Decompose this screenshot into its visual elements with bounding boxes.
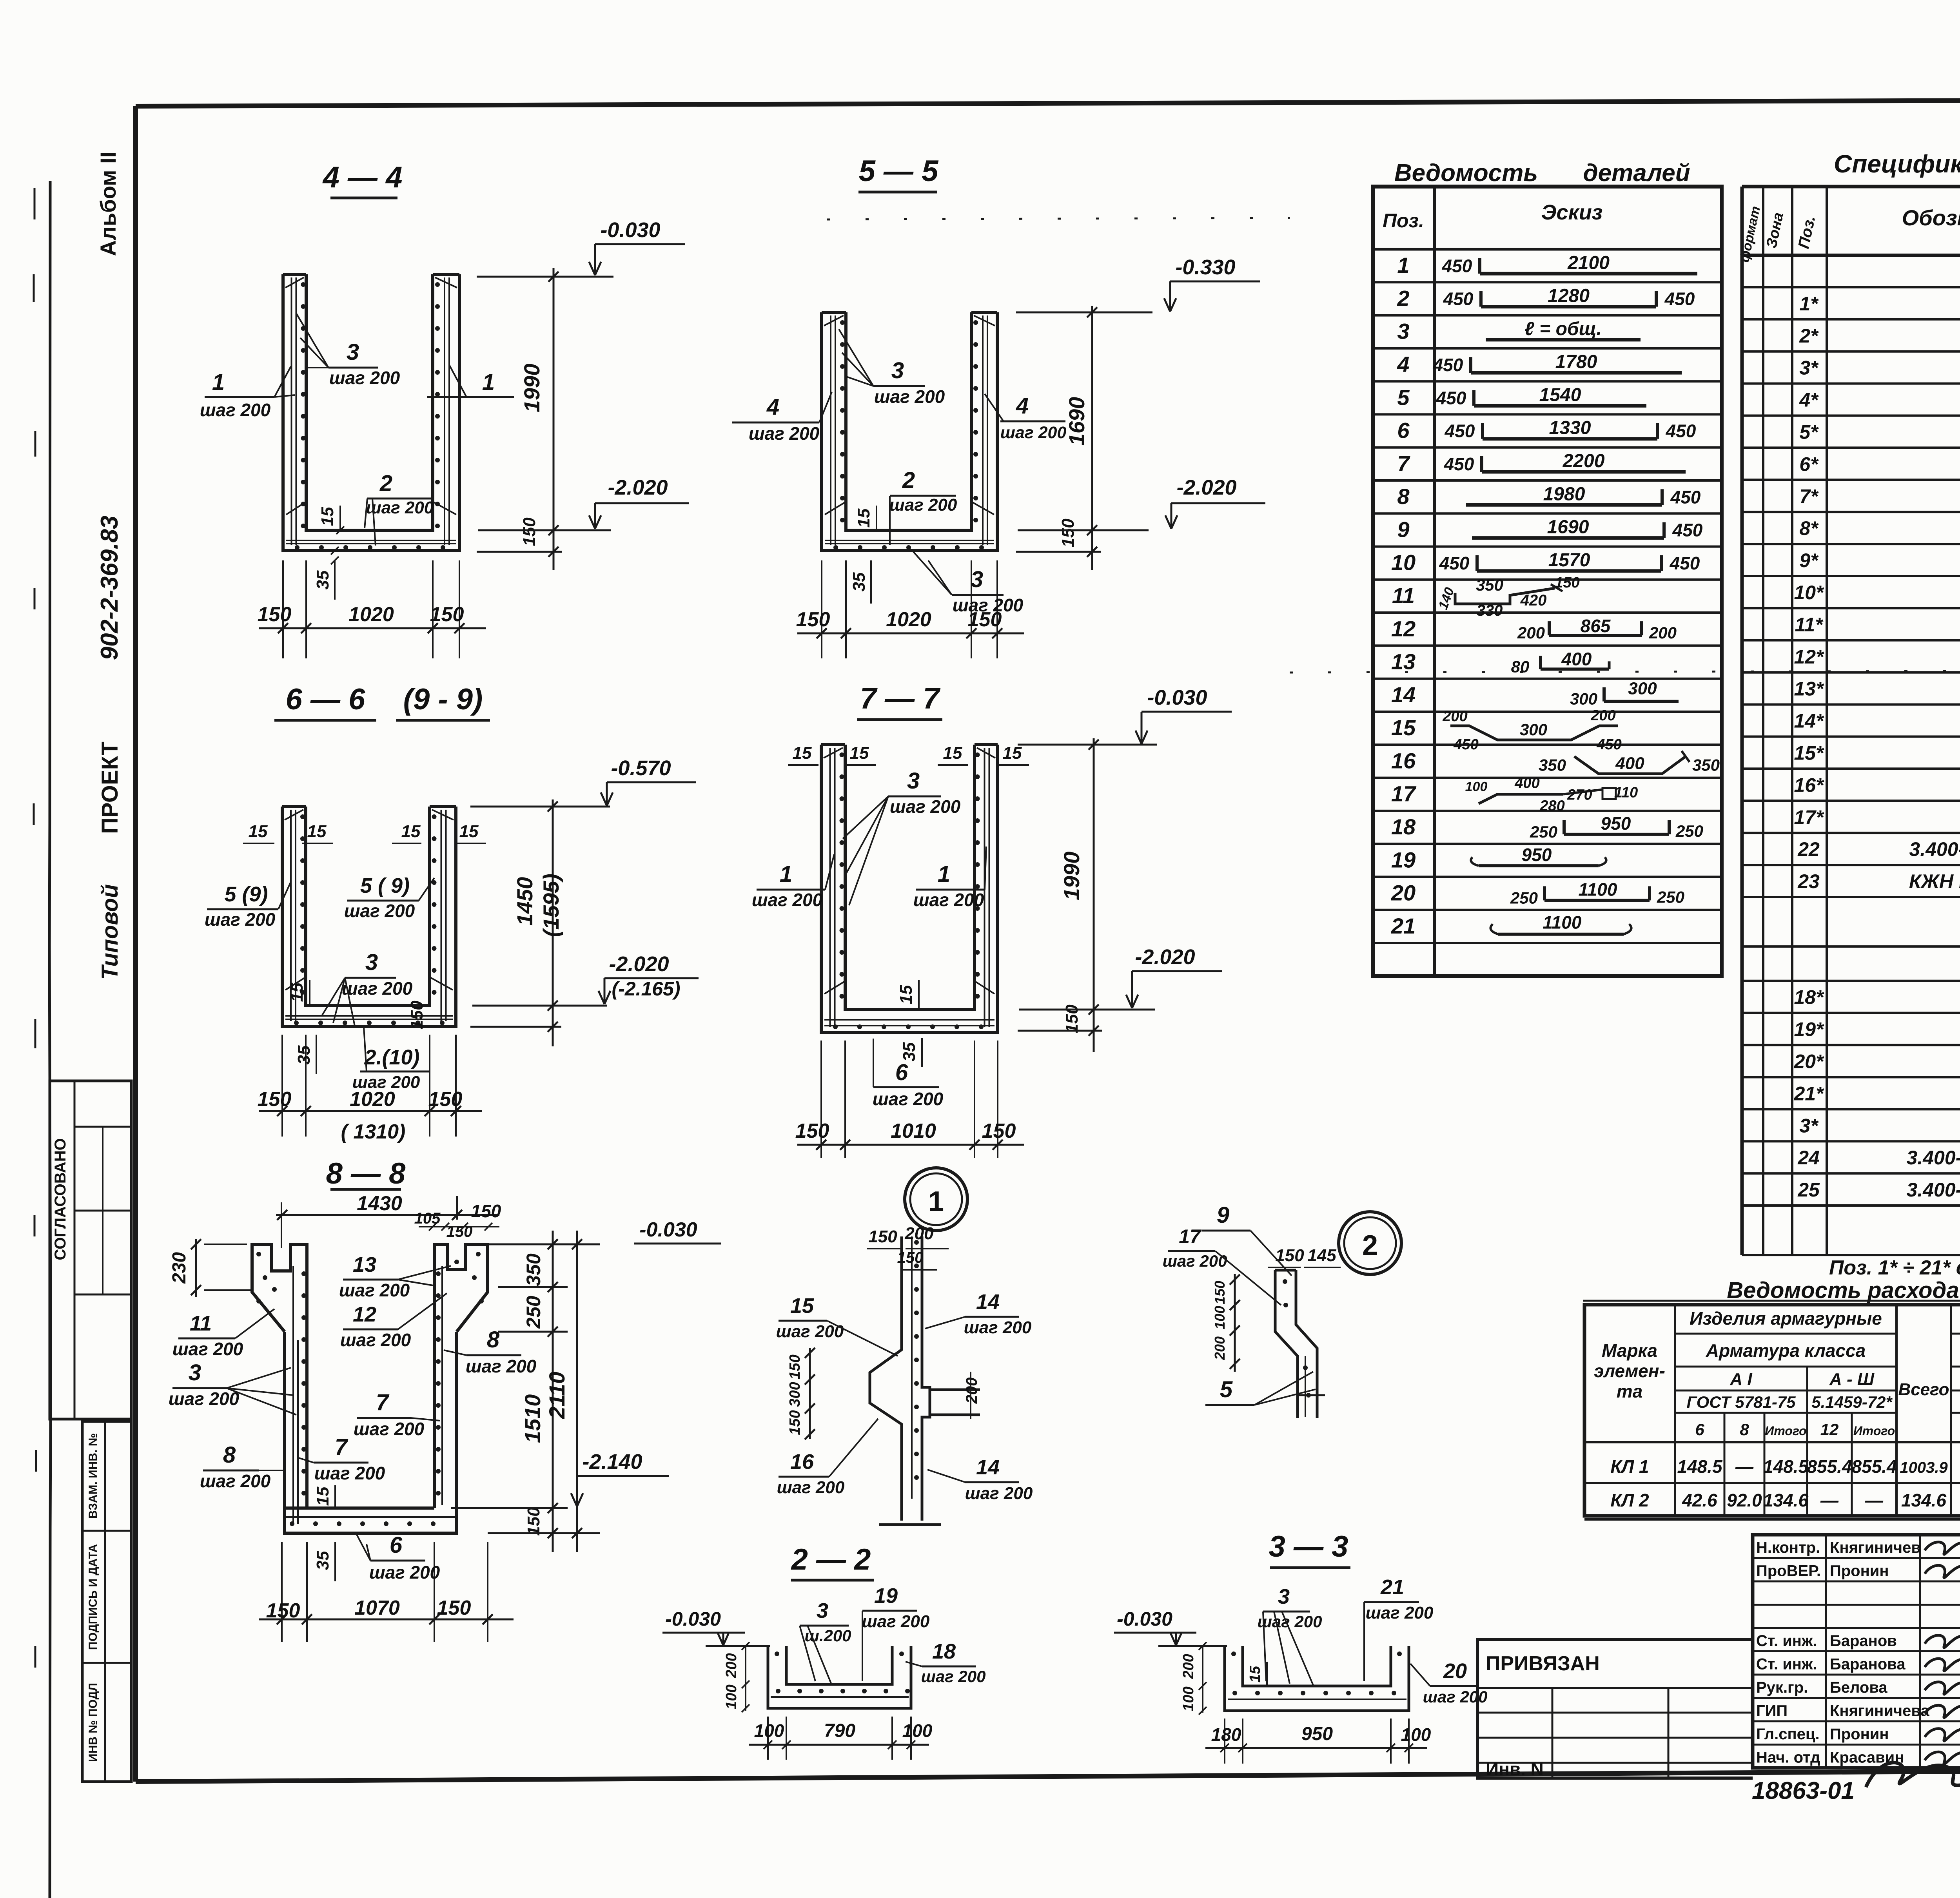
svg-text:11*: 11* (1795, 614, 1824, 636)
7-7 dim 1990 (1093, 738, 1095, 1052)
svg-text:Итого: Итого (1853, 1424, 1895, 1438)
svg-text:1010: 1010 (891, 1120, 936, 1142)
svg-text:Нач. отд: Нач. отд (1756, 1749, 1820, 1766)
svg-text:-2.020: -2.020 (1176, 476, 1236, 499)
svg-text:5 — 5: 5 — 5 (859, 154, 939, 188)
svg-text:шаг 200: шаг 200 (366, 498, 434, 517)
svg-text:15: 15 (1391, 715, 1416, 740)
svg-text:Итого: Итого (1765, 1424, 1806, 1438)
svg-text:Княгиничева: Княгиничева (1830, 1702, 1929, 1720)
svg-text:200: 200 (904, 1224, 934, 1243)
svg-text:105: 105 (414, 1210, 441, 1227)
detail 2 drawing (1275, 1270, 1298, 1418)
svg-text:300: 300 (787, 1382, 803, 1407)
svg-text:150: 150 (897, 1249, 924, 1266)
svg-text:Рук.гр.: Рук.гр. (1756, 1679, 1808, 1696)
svg-text:1: 1 (1397, 253, 1409, 277)
svg-text:та: та (1617, 1381, 1642, 1401)
svg-text:450: 450 (1433, 355, 1463, 375)
svg-text:шаг 200: шаг 200 (172, 1339, 243, 1359)
svg-text:17: 17 (1179, 1225, 1201, 1247)
svg-text:450: 450 (1666, 421, 1696, 441)
sketch row 20 (1544, 899, 1650, 902)
svg-text:1: 1 (780, 861, 792, 887)
svg-text:450: 450 (1436, 388, 1466, 408)
svg-text:Всего: Всего (1898, 1380, 1949, 1399)
svg-text:148.5: 148.5 (1677, 1456, 1723, 1477)
svg-text:шаг 200: шаг 200 (1163, 1252, 1227, 1270)
svg-text:8: 8 (487, 1327, 500, 1352)
4-4 dim 15 (339, 506, 341, 530)
svg-text:Пронин: Пронин (1830, 1726, 1889, 1743)
svg-text:450: 450 (1672, 520, 1703, 540)
svg-text:3: 3 (817, 1599, 828, 1622)
svg-text:15: 15 (287, 983, 307, 1002)
svg-text:7: 7 (335, 1434, 348, 1460)
svg-text:148.5: 148.5 (1763, 1456, 1809, 1477)
svg-text:100: 100 (1401, 1724, 1431, 1745)
svg-text:Н.контр.: Н.контр. (1756, 1539, 1820, 1556)
svg-text:450: 450 (1444, 454, 1474, 474)
svg-text:2110: 2110 (544, 1372, 569, 1419)
svg-text:1540: 1540 (1539, 384, 1581, 405)
8-8 right dims 350 250 1510 2110 150 (552, 1231, 554, 1552)
svg-text:-0.030: -0.030 (1117, 1608, 1172, 1630)
7-7 dims 15 35 (918, 980, 920, 1010)
svg-text:100: 100 (1180, 1686, 1197, 1711)
svg-text:15: 15 (897, 985, 916, 1004)
svg-text:150: 150 (407, 1001, 426, 1030)
svg-text:ℓ = общ.: ℓ = общ. (1524, 319, 1602, 339)
svg-text:1690: 1690 (1064, 397, 1089, 446)
6-6 dims 35 15 (316, 1035, 317, 1074)
svg-text:20: 20 (1391, 881, 1416, 905)
detail 1 drawing (870, 1236, 902, 1521)
svg-text:5*: 5* (1799, 421, 1819, 443)
svg-text:шаг 200: шаг 200 (749, 423, 820, 444)
svg-text:5 ( 9): 5 ( 9) (360, 874, 410, 897)
svg-text:100: 100 (1212, 1306, 1228, 1329)
svg-text:1780: 1780 (1555, 352, 1597, 372)
svg-text:950: 950 (1522, 845, 1552, 865)
svg-text:Баранова: Баранова (1830, 1656, 1906, 1673)
svg-text:6: 6 (895, 1060, 908, 1085)
section 6-6 concrete outline (282, 807, 456, 1026)
svg-text:Гл.спец.: Гл.спец. (1756, 1726, 1820, 1743)
svg-text:2100: 2100 (1567, 252, 1610, 273)
svg-text:24: 24 (1797, 1147, 1820, 1169)
svg-text:Баранов: Баранов (1830, 1632, 1897, 1650)
svg-text:902-2-369.83: 902-2-369.83 (96, 516, 123, 660)
svg-text:15: 15 (793, 743, 812, 763)
svg-text:10*: 10* (1794, 582, 1824, 604)
svg-text:100: 100 (902, 1720, 933, 1741)
svg-text:1: 1 (928, 1186, 944, 1217)
svg-text:250: 250 (1657, 888, 1684, 906)
svg-text:ГИП: ГИП (1756, 1702, 1788, 1720)
3-3 dims 200 100 (1202, 1646, 1203, 1713)
svg-text:14: 14 (1391, 682, 1416, 707)
svg-text:3.400-6/76: 3.400-6/76 (1909, 838, 1960, 860)
svg-text:21*: 21* (1793, 1082, 1824, 1104)
svg-text:950: 950 (1601, 813, 1631, 834)
svg-text:15: 15 (313, 1486, 332, 1506)
svg-text:Ведомость расхода стали н: Ведомость расхода стали на элемент, кг (1727, 1278, 1960, 1303)
svg-text:ВЗАМ. ИНВ. №: ВЗАМ. ИНВ. № (87, 1433, 100, 1519)
svg-text:250: 250 (1530, 823, 1557, 841)
svg-text:шаг 200: шаг 200 (205, 909, 276, 930)
svg-text:14*: 14* (1794, 710, 1824, 732)
svg-text:14: 14 (976, 1456, 1000, 1479)
svg-text:350: 350 (1539, 756, 1566, 774)
svg-text:шаг 200: шаг 200 (777, 1478, 845, 1497)
4-4 dim 1990 (553, 268, 555, 570)
svg-text:шаг 200: шаг 200 (342, 978, 413, 999)
svg-text:150: 150 (787, 1410, 803, 1435)
svg-text:6 — 6: 6 — 6 (286, 683, 365, 716)
svg-text:3: 3 (1278, 1585, 1290, 1608)
svg-text:20: 20 (1443, 1659, 1467, 1683)
svg-text:5: 5 (1220, 1377, 1233, 1402)
svg-text:19: 19 (1391, 847, 1416, 872)
svg-text:5 (9): 5 (9) (224, 883, 268, 906)
svg-text:14: 14 (976, 1290, 1000, 1314)
svg-text:Ст. инж.: Ст. инж. (1756, 1656, 1817, 1673)
svg-text:92.0: 92.0 (1727, 1490, 1762, 1510)
svg-text:5: 5 (1397, 385, 1410, 410)
svg-text:2: 2 (1397, 286, 1409, 310)
svg-text:15*: 15* (1794, 742, 1824, 764)
svg-text:150: 150 (258, 1088, 292, 1111)
svg-text:7: 7 (376, 1390, 390, 1415)
svg-text:1100: 1100 (1579, 879, 1617, 899)
5-5 dim 1690 (1091, 306, 1093, 570)
detail circle 1 (905, 1168, 967, 1231)
section 4-4 concrete outline (283, 274, 459, 551)
svg-text:250: 250 (1510, 888, 1538, 907)
svg-text:-0.330: -0.330 (1175, 256, 1235, 279)
svg-text:15: 15 (307, 822, 327, 841)
svg-text:19: 19 (874, 1584, 898, 1608)
svg-text:2 — 2: 2 — 2 (791, 1543, 871, 1576)
svg-text:Марка: Марка (1602, 1340, 1657, 1361)
svg-text:1020: 1020 (348, 603, 394, 626)
5-5 dim 35 15 (870, 560, 872, 604)
svg-text:350: 350 (1476, 576, 1503, 594)
svg-text:Поз. 1* ÷ 21* см. табличу вед: Поз. 1* ÷ 21* см. табличу ведомость дета… (1829, 1256, 1960, 1279)
svg-text:ПРИВЯЗАН: ПРИВЯЗАН (1486, 1652, 1600, 1675)
svg-text:6: 6 (390, 1532, 403, 1558)
section 3-3 concrete outline (1225, 1646, 1409, 1711)
svg-text:Арматура класса: Арматура класса (1706, 1340, 1866, 1361)
svg-text:300: 300 (1628, 679, 1657, 698)
svg-text:11: 11 (190, 1312, 212, 1335)
svg-text:450: 450 (1664, 289, 1695, 309)
svg-text:4: 4 (1016, 393, 1029, 419)
svg-text:35: 35 (313, 1551, 332, 1570)
svg-text:450: 450 (1596, 736, 1621, 753)
sketch row 13 (1541, 667, 1609, 671)
svg-text:(1595): (1595) (539, 874, 563, 937)
sketch row 16 (1574, 756, 1686, 774)
svg-text:250: 250 (1675, 822, 1703, 840)
svg-text:шаг 200: шаг 200 (965, 1484, 1033, 1503)
svg-text:21: 21 (1380, 1575, 1404, 1599)
svg-text:350: 350 (1692, 756, 1720, 774)
svg-text:16*: 16* (1794, 774, 1824, 796)
svg-text:8 — 8: 8 — 8 (326, 1157, 406, 1190)
7-7 bottom dims 150 1010 150 (820, 1041, 822, 1158)
steel table grid (1584, 1305, 1960, 1516)
6-6 dim 1450 (1595) (552, 799, 554, 1046)
svg-text:шаг 200: шаг 200 (913, 890, 984, 910)
svg-text:-0.030: -0.030 (639, 1218, 697, 1241)
svg-text:шаг 200: шаг 200 (354, 1419, 425, 1439)
svg-text:15: 15 (401, 822, 421, 841)
svg-text:145: 145 (1307, 1246, 1336, 1265)
svg-text:—: — (1820, 1490, 1839, 1510)
svg-text:15: 15 (790, 1294, 814, 1318)
svg-text:200: 200 (1442, 708, 1467, 725)
svg-text:200: 200 (1649, 624, 1677, 642)
svg-text:330: 330 (1477, 602, 1503, 619)
svg-text:Изделия армагурные: Изделия армагурные (1690, 1308, 1882, 1329)
svg-text:12: 12 (1820, 1420, 1839, 1439)
svg-text:280: 280 (1539, 798, 1564, 814)
svg-text:100: 100 (1465, 780, 1488, 794)
svg-text:200: 200 (1212, 1336, 1228, 1360)
sketch row 12 (1549, 634, 1642, 637)
signatures (1925, 1542, 1960, 1554)
svg-text:10: 10 (1391, 550, 1416, 575)
fold dotted line middle (1290, 671, 1960, 673)
2-2 dims 200 100 (745, 1646, 746, 1711)
svg-text:15: 15 (459, 822, 479, 841)
svg-text:КЛ 2: КЛ 2 (1610, 1490, 1649, 1510)
svg-text:3: 3 (347, 339, 359, 365)
svg-text:6: 6 (1397, 418, 1410, 443)
svg-text:9: 9 (1217, 1202, 1229, 1228)
svg-text:150: 150 (437, 1597, 471, 1619)
svg-text:180: 180 (1211, 1724, 1241, 1745)
svg-text:Ст. инж.: Ст. инж. (1756, 1632, 1817, 1650)
svg-text:6*: 6* (1799, 453, 1819, 475)
svg-text:шаг 200: шаг 200 (752, 890, 823, 910)
svg-text:2*: 2* (1799, 325, 1819, 347)
svg-text:7*: 7* (1799, 485, 1819, 507)
svg-text:2.(10): 2.(10) (364, 1046, 419, 1069)
svg-text:1990: 1990 (1059, 852, 1084, 901)
svg-text:855.4: 855.4 (1807, 1456, 1852, 1477)
svg-text:18863-01: 18863-01 (1752, 1777, 1855, 1804)
svg-text:3*: 3* (1799, 357, 1819, 379)
svg-text:150: 150 (868, 1227, 897, 1246)
svg-text:-2.020: -2.020 (609, 952, 669, 976)
svg-text:17*: 17* (1794, 806, 1824, 828)
svg-text:400: 400 (1615, 754, 1644, 773)
svg-text:6: 6 (1695, 1420, 1704, 1439)
svg-text:Эскиз: Эскиз (1541, 201, 1603, 224)
detail circle 2 (1339, 1212, 1401, 1274)
svg-text:300: 300 (1570, 690, 1597, 708)
svg-text:18: 18 (1391, 814, 1416, 839)
svg-text:шаг 200: шаг 200 (964, 1318, 1032, 1337)
svg-text:—: — (1735, 1456, 1754, 1477)
svg-text:16: 16 (1391, 748, 1416, 773)
svg-text:16: 16 (790, 1450, 814, 1474)
svg-text:А I: А I (1730, 1370, 1752, 1389)
svg-text:5.1459-72*: 5.1459-72* (1811, 1393, 1893, 1411)
svg-text:150: 150 (520, 517, 539, 546)
5-5 bottom dims (821, 560, 822, 658)
svg-text:шаг 200: шаг 200 (369, 1562, 440, 1583)
svg-text:270: 270 (1567, 787, 1592, 803)
2-2 bottom dims 100 790 100 (767, 1717, 769, 1760)
svg-text:3: 3 (365, 950, 378, 975)
svg-text:35: 35 (294, 1045, 314, 1064)
svg-text:(9 - 9): (9 - 9) (403, 683, 483, 716)
svg-text:950: 950 (1301, 1724, 1333, 1744)
svg-text:21: 21 (1391, 914, 1416, 938)
svg-text:855.4: 855.4 (1851, 1456, 1896, 1477)
svg-text:1570: 1570 (1548, 550, 1590, 571)
svg-text:КЖН МНБ: КЖН МНБ (1909, 870, 1960, 892)
svg-text:150: 150 (258, 603, 292, 626)
svg-text:1: 1 (212, 370, 225, 395)
svg-text:элемен-: элемен- (1594, 1361, 1665, 1381)
svg-text:35: 35 (849, 572, 869, 591)
svg-text:23: 23 (1797, 870, 1820, 892)
sketch row 21 (1498, 933, 1624, 936)
svg-text:4: 4 (766, 394, 779, 420)
svg-text:3: 3 (907, 768, 920, 794)
svg-text:1*: 1* (1799, 293, 1819, 315)
svg-text:Инв. N: Инв. N (1486, 1759, 1544, 1779)
svg-text:150: 150 (787, 1354, 803, 1379)
svg-text:7: 7 (1397, 451, 1410, 476)
fold dotted line top (827, 218, 1290, 219)
svg-text:13: 13 (1391, 649, 1416, 674)
svg-text:-0.030: -0.030 (1147, 686, 1207, 709)
svg-text:250: 250 (523, 1296, 544, 1329)
svg-text:2: 2 (902, 468, 915, 493)
svg-text:1510: 1510 (520, 1394, 545, 1443)
svg-text:35: 35 (900, 1042, 919, 1061)
svg-text:Пронин: Пронин (1830, 1563, 1889, 1580)
svg-text:А - Ш: А - Ш (1829, 1370, 1875, 1389)
svg-text:3 — 3: 3 — 3 (1269, 1530, 1348, 1563)
svg-text:-0.570: -0.570 (611, 756, 671, 780)
svg-text:Поз.: Поз. (1383, 210, 1424, 232)
stamp box ВЗАМ ИНВ (82, 1421, 131, 1782)
svg-text:Типовой: Типовой (97, 884, 123, 980)
svg-text:шаг 200: шаг 200 (890, 796, 961, 817)
svg-text:134.6: 134.6 (1901, 1490, 1947, 1510)
svg-text:шаг 200: шаг 200 (314, 1463, 385, 1483)
svg-text:(-2.165): (-2.165) (612, 978, 680, 1000)
svg-text:1990: 1990 (519, 364, 544, 413)
svg-text:шаг 200: шаг 200 (921, 1667, 986, 1686)
svg-text:1430: 1430 (357, 1192, 402, 1215)
svg-text:150: 150 (430, 603, 464, 626)
svg-text:15: 15 (850, 743, 869, 763)
svg-text:1070: 1070 (354, 1597, 400, 1619)
svg-text:18*: 18* (1794, 986, 1824, 1008)
svg-text:1: 1 (938, 861, 950, 887)
svg-text:15: 15 (943, 743, 962, 763)
sketch row 14 (1604, 700, 1679, 703)
svg-text:3.400- 6/76: 3.400- 6/76 (1907, 1147, 1960, 1169)
svg-text:-2.020: -2.020 (608, 476, 668, 499)
svg-text:1003.9: 1003.9 (1900, 1459, 1948, 1476)
svg-text:22: 22 (1797, 838, 1820, 860)
svg-text:110: 110 (1614, 785, 1638, 801)
svg-text:1: 1 (482, 370, 495, 395)
svg-text:4 — 4: 4 — 4 (322, 161, 403, 194)
sheet torn left edge (49, 181, 51, 1898)
4-4 dim 35 (334, 560, 336, 600)
svg-text:420: 420 (1520, 592, 1547, 609)
svg-text:Белова: Белова (1830, 1679, 1887, 1696)
svg-text:20*: 20* (1793, 1051, 1824, 1073)
title block staff table (1753, 1535, 1960, 1768)
svg-text:-0.030: -0.030 (600, 218, 660, 242)
svg-text:( 1310): ( 1310) (341, 1120, 406, 1143)
svg-text:18: 18 (932, 1640, 956, 1663)
svg-text:400: 400 (1514, 775, 1539, 792)
svg-text:ПОДПИСЬ И ДАТА: ПОДПИСЬ И ДАТА (87, 1544, 100, 1650)
svg-text:деталей: деталей (1583, 160, 1690, 187)
svg-text:400: 400 (1561, 649, 1592, 669)
svg-text:1330: 1330 (1549, 418, 1591, 439)
sketch row 19 (1479, 864, 1599, 867)
svg-text:150: 150 (1058, 518, 1078, 547)
svg-text:2200: 2200 (1563, 451, 1605, 471)
svg-text:80: 80 (1511, 657, 1530, 676)
svg-text:2: 2 (1362, 1230, 1378, 1261)
svg-text:790: 790 (824, 1720, 855, 1741)
svg-text:-0.030: -0.030 (665, 1608, 721, 1630)
svg-text:150: 150 (524, 1507, 543, 1536)
svg-text:35: 35 (313, 570, 332, 589)
svg-text:134.6: 134.6 (1763, 1490, 1809, 1510)
svg-text:150: 150 (1555, 575, 1579, 591)
svg-text:шаг 200: шаг 200 (953, 595, 1024, 615)
svg-text:150: 150 (1212, 1281, 1228, 1304)
svg-text:9*: 9* (1799, 549, 1819, 571)
svg-text:150: 150 (471, 1201, 501, 1221)
svg-text:230: 230 (169, 1252, 190, 1284)
svg-text:Спецификация: Спецификация (1834, 150, 1960, 178)
svg-text:15: 15 (318, 507, 337, 526)
svg-text:шаг 200: шаг 200 (873, 1089, 944, 1109)
svg-text:4: 4 (1397, 352, 1409, 377)
svg-text:ГОСТ 5781-75: ГОСТ 5781-75 (1686, 1393, 1796, 1411)
stamp box СОГЛАСОВАНО (50, 1081, 131, 1419)
svg-text:шаг 200: шаг 200 (169, 1389, 240, 1409)
svg-text:8: 8 (1740, 1420, 1749, 1439)
svg-text:1280: 1280 (1548, 286, 1590, 306)
3-3 dim 15 (1266, 1662, 1268, 1686)
svg-text:200: 200 (1590, 707, 1615, 724)
svg-text:1690: 1690 (1547, 517, 1589, 538)
svg-text:шаг 200: шаг 200 (352, 1073, 420, 1092)
svg-text:4*: 4* (1799, 389, 1819, 411)
sketch row 18 (1564, 833, 1669, 836)
svg-text:15: 15 (249, 822, 268, 841)
svg-text:-2.140: -2.140 (582, 1450, 642, 1474)
svg-text:3: 3 (971, 567, 983, 592)
